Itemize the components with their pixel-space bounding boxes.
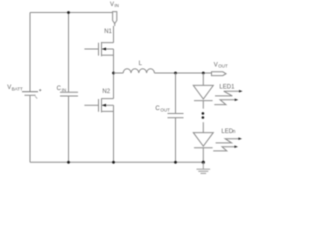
label VBATT [7,85,23,91]
wire VIN to N1 drain [102,24,115,43]
svg-text:IN: IN [62,87,67,92]
svg-text:IN: IN [114,3,119,8]
wire CIN rail top [68,13,70,93]
svg-text:OUT: OUT [160,107,170,112]
wire LED1 cathode stub [202,101,204,109]
node output-COUT [174,72,177,75]
label LED1 [219,84,235,90]
label LEDn [221,129,235,135]
node ellipsis dots [202,112,205,119]
node CIN-top [67,11,70,14]
wire N2 source to ground rail [113,105,115,162]
led LED1 [193,85,213,100]
wire COUT branch [175,73,177,114]
wire inductor to output [154,72,211,74]
node COUT-rail [174,161,177,164]
wire left battery rail bottom [29,95,31,162]
wire LEDn anode stub [202,122,204,132]
terminal VOUT [212,72,227,76]
wire CIN rail bottom [68,96,70,162]
led LEDn [193,133,213,148]
battery VBATT [22,89,41,99]
node CIN-bottom [67,161,70,164]
svg-text:L: L [139,61,143,67]
label CIN [57,86,67,92]
label N1 [104,29,112,35]
label VOUT [214,62,228,68]
svg-text:OUT: OUT [218,64,228,69]
wire COUT to ground rail [175,118,177,163]
wire LEDn cathode to rail [202,148,204,163]
inductor L [114,69,155,73]
label L [139,61,143,67]
led LEDn light arrows [213,137,242,151]
node N2-source-rail [112,161,115,164]
svg-text:n: n [233,129,236,135]
terminal VIN [113,12,117,24]
wire top rail [30,12,113,14]
capacitor CIN [60,92,78,96]
mosfet N2 [84,98,113,112]
label N2 [102,89,110,95]
node output-LED [202,72,205,75]
ground [197,162,211,173]
svg-text:LED1: LED1 [219,84,235,90]
svg-text:N2: N2 [102,89,110,95]
label COUT [155,106,170,112]
svg-text:N1: N1 [104,29,112,35]
label VIN [110,2,119,8]
led LED1 light arrows [214,90,242,105]
capacitor COUT [168,114,184,118]
mosfet N1 [84,42,113,56]
svg-text:BATT: BATT [12,87,23,92]
wire bottom rail [30,161,203,163]
wire LED branch top [202,73,204,85]
node LED-rail [202,161,205,164]
wire left battery rail top [29,13,31,92]
node switch-inductor [112,72,115,75]
wire switch node [113,49,115,99]
